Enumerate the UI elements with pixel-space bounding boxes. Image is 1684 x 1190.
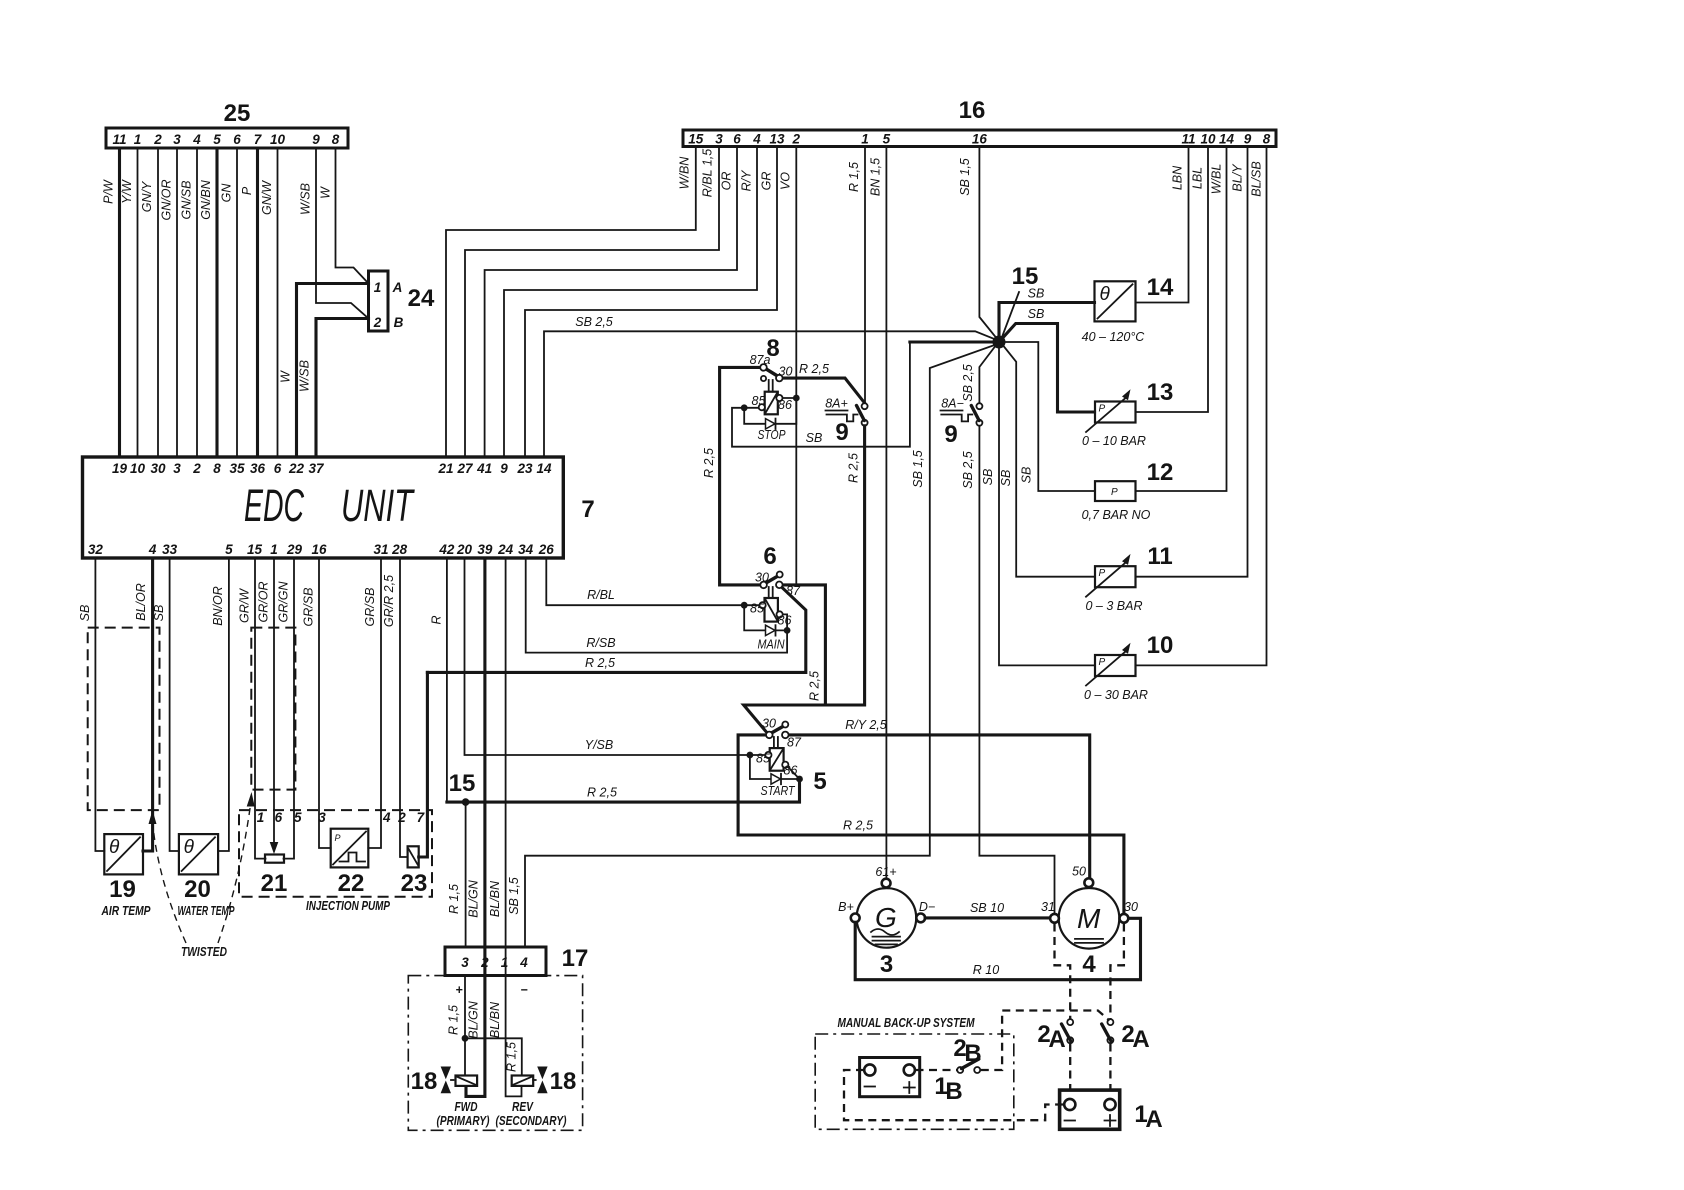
wire 25.8 to 24.1 W xyxy=(336,148,369,284)
connector 17 xyxy=(445,947,546,976)
switch 2B xyxy=(957,1067,963,1073)
connector 25 xyxy=(106,128,348,148)
svg-text:W/SB: W/SB xyxy=(298,360,312,392)
wire EDC.34 R/SB to MAIN diode xyxy=(526,558,787,653)
svg-text:18: 18 xyxy=(550,1068,577,1095)
svg-text:R/Y: R/Y xyxy=(740,169,754,192)
svg-text:GR/GN: GR/GN xyxy=(277,581,291,623)
svg-text:SB: SB xyxy=(806,431,823,445)
wire 16.2 VO down to MAIN 87 xyxy=(795,147,797,585)
svg-text:12: 12 xyxy=(1147,459,1174,486)
svg-text:9: 9 xyxy=(944,421,957,448)
air temp sensor 19 xyxy=(104,834,143,874)
svg-text:W/BN: W/BN xyxy=(678,156,692,190)
svg-text:SB: SB xyxy=(999,470,1013,487)
svg-text:2: 2 xyxy=(397,810,406,825)
svg-text:31: 31 xyxy=(373,542,388,557)
svg-text:30: 30 xyxy=(762,717,776,731)
svg-text:9: 9 xyxy=(312,132,320,147)
svg-text:R 2,5: R 2,5 xyxy=(585,656,615,670)
svg-text:R/BL 1,5: R/BL 1,5 xyxy=(701,149,715,197)
wire 23 to R 2,5 line xyxy=(419,672,428,857)
svg-text:R/BL: R/BL xyxy=(587,588,615,602)
svg-text:6: 6 xyxy=(233,132,241,147)
svg-text:30: 30 xyxy=(779,365,793,379)
svg-text:A: A xyxy=(1145,1106,1162,1133)
svg-text:P: P xyxy=(1099,657,1106,668)
wire 16.10 LBL to sensor 13 xyxy=(1136,147,1209,413)
battery 1B xyxy=(860,1058,920,1097)
connector 24 xyxy=(369,271,389,331)
svg-text:θ: θ xyxy=(109,837,120,858)
svg-text:8: 8 xyxy=(1263,132,1271,147)
dashed wire 1B- left loop to 1A- xyxy=(844,1070,1063,1120)
node 15 left: EDC.42 R to R 2,5 xyxy=(446,558,448,802)
svg-text:BL/BN: BL/BN xyxy=(488,1001,502,1038)
wire 8A- down SB 2,5 to motor 31 xyxy=(979,426,1054,914)
svg-text:21: 21 xyxy=(437,461,453,476)
svg-text:4: 4 xyxy=(752,132,761,147)
svg-text:22: 22 xyxy=(288,461,305,476)
svg-text:18: 18 xyxy=(411,1068,438,1095)
svg-text:θ: θ xyxy=(1100,284,1111,305)
svg-text:R 2,5: R 2,5 xyxy=(702,448,716,478)
svg-text:11: 11 xyxy=(1181,132,1195,147)
svg-text:30: 30 xyxy=(1124,900,1138,914)
svg-text:A: A xyxy=(1048,1026,1065,1053)
svg-text:OR: OR xyxy=(720,172,734,191)
START 86 diagonal xyxy=(788,767,800,780)
svg-text:R/SB: R/SB xyxy=(586,636,615,650)
starter motor 4 xyxy=(1059,888,1120,949)
wire EDC.1 GR/OR wiper arrow xyxy=(273,558,275,843)
wire 16.4-EDC.9 R/Y xyxy=(504,147,757,458)
star ray to sensor 13 SB xyxy=(1003,324,1095,413)
svg-text:BL/Y: BL/Y xyxy=(1231,163,1245,192)
wire 16.9 BL/Y to sensor 11 xyxy=(1136,147,1248,577)
svg-text:MAIN: MAIN xyxy=(758,638,786,652)
svg-text:6: 6 xyxy=(733,132,741,147)
svg-text:START: START xyxy=(761,784,796,798)
EDC UNIT box 7 xyxy=(83,457,564,558)
svg-text:9: 9 xyxy=(500,461,508,476)
svg-text:29: 29 xyxy=(286,542,303,557)
solenoid valve 18 FWD xyxy=(456,1076,478,1086)
wire EDC.24 BL/BN to 17.1 to REV coil xyxy=(506,558,522,1096)
gear dash-dot box xyxy=(408,976,582,1131)
wire 25.10-EDC.6 GN/W xyxy=(277,148,279,457)
wire R 1,5 from node15 to 17.3 and solenoids xyxy=(464,802,467,1075)
motor dashed bracket to switches 2A xyxy=(1055,924,1071,1019)
svg-text:85: 85 xyxy=(756,752,770,766)
svg-text:BL/SB: BL/SB xyxy=(1250,161,1264,196)
svg-text:SB 10: SB 10 xyxy=(970,901,1004,915)
wire 25.11-EDC.19 P/W xyxy=(118,148,121,457)
svg-text:20: 20 xyxy=(456,542,473,557)
svg-text:25: 25 xyxy=(224,100,251,127)
svg-text:10: 10 xyxy=(130,461,146,476)
svg-text:R 1,5: R 1,5 xyxy=(504,1042,518,1072)
svg-text:BN/OR: BN/OR xyxy=(211,586,225,626)
wire 16.5 BN 1,5 down to generator 61+ xyxy=(885,147,887,879)
wire EDC.20 Y/SB to START 85 xyxy=(465,558,766,755)
svg-text:50: 50 xyxy=(1072,865,1086,879)
svg-text:13: 13 xyxy=(769,132,785,147)
svg-text:GN/SB: GN/SB xyxy=(180,181,194,220)
svg-text:2: 2 xyxy=(792,132,801,147)
svg-text:9: 9 xyxy=(835,419,848,446)
START diode loop xyxy=(750,755,800,779)
svg-text:5: 5 xyxy=(883,132,891,147)
svg-text:P: P xyxy=(1111,487,1118,498)
svg-text:SB 1,5: SB 1,5 xyxy=(958,158,972,196)
svg-text:R 1,5: R 1,5 xyxy=(447,1005,461,1035)
svg-text:W: W xyxy=(279,370,293,383)
wire EDC.5 BN/OR to sensor 20 xyxy=(218,558,229,851)
svg-text:4: 4 xyxy=(148,542,157,557)
svg-text:GR: GR xyxy=(760,172,774,191)
wire 16.3-EDC.27 R/BL 1,5 xyxy=(465,147,719,458)
wire EDC.33 SB to sensor 20 xyxy=(170,558,179,851)
water temp sensor 20 xyxy=(179,834,218,874)
svg-text:0 – 3 BAR: 0 – 3 BAR xyxy=(1086,599,1143,613)
svg-text:86: 86 xyxy=(778,398,792,412)
svg-text:87: 87 xyxy=(787,736,802,750)
dashed wires 2A to battery 1A xyxy=(1069,1044,1071,1099)
svg-text:R 2,5: R 2,5 xyxy=(587,786,617,800)
svg-text:STOP: STOP xyxy=(758,428,787,442)
svg-text:30: 30 xyxy=(150,461,166,476)
switch 2A left xyxy=(1067,1019,1073,1025)
wire 16.1 R 1,5 down to breaker 8A+ xyxy=(864,147,866,404)
svg-text:27: 27 xyxy=(456,461,474,476)
svg-text:3: 3 xyxy=(715,132,723,147)
wire 25.2-EDC.30 GN/Y xyxy=(157,148,159,457)
breaker 9 8A- xyxy=(976,403,982,409)
svg-text:W: W xyxy=(319,186,333,199)
svg-text:3: 3 xyxy=(173,461,181,476)
svg-text:16: 16 xyxy=(972,132,988,147)
svg-text:SB: SB xyxy=(152,605,166,622)
svg-text:LBL: LBL xyxy=(1191,167,1205,189)
solenoid valve 18 REV xyxy=(512,1076,534,1086)
dashed wire 2B to 2A right top xyxy=(981,1011,1110,1071)
svg-text:23: 23 xyxy=(516,461,533,476)
relay 6 MAIN body xyxy=(765,598,778,622)
svg-text:61+: 61+ xyxy=(875,865,896,879)
svg-text:16: 16 xyxy=(959,97,986,124)
wire EDC.14 SB 2,5 to node 15 xyxy=(544,331,998,457)
STOP diode loop xyxy=(744,398,796,424)
star ray diag SB 2,5 to breaker 8A- xyxy=(979,347,995,404)
svg-text:6: 6 xyxy=(763,543,776,570)
svg-text:SB 1,5: SB 1,5 xyxy=(911,450,925,488)
switch 2A right xyxy=(1107,1019,1113,1025)
wire 24.1-EDC.22 W xyxy=(297,284,369,458)
svg-text:P: P xyxy=(240,186,254,195)
svg-text:14: 14 xyxy=(1147,274,1174,301)
wire 16.11 LBN to sensor 14 xyxy=(1136,147,1189,303)
svg-text:34: 34 xyxy=(518,542,534,557)
svg-text:R 2,5: R 2,5 xyxy=(807,671,821,701)
wire EDC.16 GR/SB to pickup 22 xyxy=(319,558,331,848)
svg-text:1: 1 xyxy=(861,132,869,147)
svg-text:6: 6 xyxy=(275,810,283,825)
svg-text:2: 2 xyxy=(373,315,382,330)
wire 16.13-EDC.23 GR xyxy=(525,147,777,458)
svg-text:4: 4 xyxy=(1082,951,1096,978)
svg-text:D−: D− xyxy=(919,900,935,914)
svg-text:19: 19 xyxy=(109,876,136,903)
MAIN 86 wire xyxy=(783,614,787,627)
svg-text:A: A xyxy=(1132,1026,1149,1053)
wire STOP 87a to MAIN 30, R 2,5 xyxy=(720,367,761,585)
wire 25.3-EDC.3 GN/OR xyxy=(176,148,178,457)
svg-text:32: 32 xyxy=(88,542,104,557)
injection pump dashed box xyxy=(239,810,432,897)
svg-text:SB: SB xyxy=(981,469,995,486)
manual back-up system dash-dot box xyxy=(815,1034,1014,1129)
breaker 9 8A+ xyxy=(862,403,868,409)
pressure sender 10 xyxy=(1095,655,1136,676)
svg-text:15: 15 xyxy=(449,770,476,797)
svg-text:0 – 10 BAR: 0 – 10 BAR xyxy=(1082,434,1146,448)
svg-text:GR/R 2,5: GR/R 2,5 xyxy=(382,575,396,627)
svg-text:BL/GN: BL/GN xyxy=(467,879,481,917)
svg-text:86: 86 xyxy=(784,764,798,778)
svg-text:42: 42 xyxy=(438,542,455,557)
svg-text:24: 24 xyxy=(408,285,435,312)
svg-text:FWD: FWD xyxy=(455,1099,478,1114)
svg-text:3: 3 xyxy=(173,132,181,147)
svg-text:R 1,5: R 1,5 xyxy=(847,162,861,192)
svg-text:(PRIMARY): (PRIMARY) xyxy=(437,1113,490,1128)
svg-text:17: 17 xyxy=(562,945,589,972)
wire EDC.28 GR/R 2,5 to 23 xyxy=(400,558,408,857)
twisted dashed box around 19 wires xyxy=(88,628,160,811)
svg-text:87: 87 xyxy=(786,584,801,598)
wire 25.6-EDC.35 GN xyxy=(236,148,238,457)
svg-text:B+: B+ xyxy=(838,900,854,914)
svg-text:23: 23 xyxy=(401,870,428,897)
svg-text:BL/BN: BL/BN xyxy=(488,880,502,917)
pickup sensor 22 xyxy=(331,829,369,868)
junction 85 dot xyxy=(741,404,748,411)
pressure sender 11 xyxy=(1095,566,1136,587)
svg-text:EDC: EDC xyxy=(244,480,304,531)
svg-text:SB: SB xyxy=(1019,467,1033,484)
star ray down SB to sensor 10 xyxy=(999,348,1095,665)
MAIN 87 diagonal to R 2,5 injection line xyxy=(427,587,805,672)
svg-text:θ: θ xyxy=(184,837,195,858)
svg-text:3: 3 xyxy=(461,955,469,970)
star ray to sensor 14 SB xyxy=(999,303,1095,337)
svg-text:20: 20 xyxy=(184,876,211,903)
junction dot and branch R 1,5 to REV xyxy=(462,1035,469,1042)
wire R/Y 2,5 START 87 to motor 50 xyxy=(789,735,1090,878)
svg-text:85: 85 xyxy=(752,394,766,408)
svg-text:INJECTION PUMP: INJECTION PUMP xyxy=(306,898,390,913)
svg-text:4: 4 xyxy=(382,810,391,825)
dashed wire 1B+ to 2B xyxy=(916,1069,957,1071)
svg-text:10: 10 xyxy=(1200,132,1216,147)
svg-text:5: 5 xyxy=(225,542,233,557)
svg-text:MANUAL BACK-UP SYSTEM: MANUAL BACK-UP SYSTEM xyxy=(838,1015,976,1030)
wire SB 10 generator D- to motor 31 xyxy=(925,916,1050,919)
svg-text:BN 1,5: BN 1,5 xyxy=(869,158,883,196)
wire 25.1-EDC.10 Y/W xyxy=(137,148,139,457)
svg-text:SB: SB xyxy=(1028,287,1045,301)
svg-text:M: M xyxy=(1077,903,1101,934)
svg-text:24: 24 xyxy=(497,542,514,557)
svg-text:P/W: P/W xyxy=(102,179,116,204)
star ray diag SB to sensor 11 xyxy=(1004,346,1095,577)
svg-text:4: 4 xyxy=(192,132,201,147)
svg-text:14: 14 xyxy=(536,461,552,476)
svg-text:1: 1 xyxy=(270,542,278,557)
svg-text:GN: GN xyxy=(220,183,234,203)
connector 16 xyxy=(683,130,1276,147)
svg-text:35: 35 xyxy=(229,461,245,476)
svg-text:1: 1 xyxy=(134,132,142,147)
wire STOP 85 - SB loop to node 15 xyxy=(732,342,910,447)
svg-text:6: 6 xyxy=(274,461,282,476)
wire START 30 left down to R 2,5 motor line xyxy=(738,735,766,835)
svg-text:4: 4 xyxy=(519,955,528,970)
svg-text:GR/SB: GR/SB xyxy=(302,588,316,627)
svg-text:7: 7 xyxy=(581,496,594,523)
svg-text:AIR TEMP: AIR TEMP xyxy=(101,903,151,918)
wire EDC.32 SB to sensor 19 xyxy=(95,558,104,851)
wire EDC.29 GR/GN to pot 21 xyxy=(284,558,295,859)
svg-text:W/BL: W/BL xyxy=(1210,164,1224,195)
diode STOP xyxy=(766,419,776,429)
svg-text:8A+: 8A+ xyxy=(825,397,848,411)
potentiometer 21 xyxy=(265,855,284,863)
svg-text:P: P xyxy=(1099,568,1106,579)
svg-text:REV: REV xyxy=(512,1099,534,1114)
wire 16.8 BL/SB to sensor 10 xyxy=(1136,147,1267,666)
svg-text:BL/OR: BL/OR xyxy=(134,583,148,621)
svg-text:11: 11 xyxy=(1147,543,1172,570)
svg-text:+: + xyxy=(455,983,463,997)
svg-text:19: 19 xyxy=(112,461,128,476)
svg-text:0,7 BAR NO: 0,7 BAR NO xyxy=(1082,508,1151,522)
svg-text:10: 10 xyxy=(1147,632,1174,659)
svg-text:5: 5 xyxy=(213,132,221,147)
svg-text:21: 21 xyxy=(261,870,288,897)
wire EDC.39 BL/GN to 17.2 to FWD coil xyxy=(466,558,485,1096)
star ray diag SB 1,5 to conn 17.4 xyxy=(525,345,995,947)
stop solenoid 23 xyxy=(408,846,419,867)
generator 3 xyxy=(857,888,917,948)
wire EDC.4 BL/OR to sensor 19 xyxy=(143,558,153,851)
wire EDC.15 GR/W to pot 21 xyxy=(255,558,266,859)
svg-text:5: 5 xyxy=(294,810,302,825)
svg-text:36: 36 xyxy=(250,461,266,476)
svg-text:0 – 30 BAR: 0 – 30 BAR xyxy=(1084,688,1148,702)
svg-text:22: 22 xyxy=(338,870,365,897)
svg-text:15: 15 xyxy=(688,132,704,147)
wire STOP 30 to breaker 8A+, R 2,5 xyxy=(783,378,865,403)
svg-text:41: 41 xyxy=(476,461,492,476)
svg-text:28: 28 xyxy=(391,542,408,557)
wire EDC.31 GR/SB from pickup 22 xyxy=(368,558,381,848)
svg-text:1: 1 xyxy=(257,810,265,825)
svg-text:−: − xyxy=(520,983,528,997)
pressure switch 12 xyxy=(1095,481,1136,501)
wire 8A+ down to MAIN 87 / START 30 xyxy=(744,426,865,733)
svg-text:BL/GN: BL/GN xyxy=(467,1000,481,1038)
svg-text:B: B xyxy=(945,1078,962,1105)
svg-text:LBN: LBN xyxy=(1171,165,1185,190)
wire EDC.26 R/BL to MAIN 85 xyxy=(546,558,758,605)
svg-text:10: 10 xyxy=(270,132,286,147)
svg-text:14: 14 xyxy=(1219,132,1235,147)
temp sender 14 xyxy=(1095,281,1136,321)
svg-text:B: B xyxy=(394,315,404,330)
svg-text:40 – 120°C: 40 – 120°C xyxy=(1082,330,1146,344)
wire 16.14 W/BL to sensor 12 xyxy=(1136,147,1227,492)
svg-text:8A−: 8A− xyxy=(941,397,964,411)
svg-text:R 2,5: R 2,5 xyxy=(843,819,873,833)
pressure sender 13 xyxy=(1095,402,1136,423)
svg-text:A: A xyxy=(392,280,403,295)
svg-text:SB 2,5: SB 2,5 xyxy=(575,315,613,329)
svg-text:R/Y 2,5: R/Y 2,5 xyxy=(845,718,887,732)
svg-text:B: B xyxy=(964,1040,981,1067)
svg-text:5: 5 xyxy=(813,768,826,795)
svg-text:26: 26 xyxy=(538,542,555,557)
svg-text:Y/W: Y/W xyxy=(120,179,134,204)
svg-text:(SECONDARY): (SECONDARY) xyxy=(496,1113,567,1128)
svg-text:SB: SB xyxy=(1028,307,1045,321)
star dot xyxy=(993,336,1006,349)
svg-text:9: 9 xyxy=(1244,132,1252,147)
svg-text:GR/OR: GR/OR xyxy=(257,582,271,623)
star ray right SB to sensor 12 xyxy=(1006,342,1095,491)
svg-text:W/SB: W/SB xyxy=(299,183,313,215)
svg-text:85: 85 xyxy=(750,602,764,616)
svg-text:SB: SB xyxy=(78,605,92,622)
svg-text:1: 1 xyxy=(501,955,509,970)
svg-text:31: 31 xyxy=(1041,900,1055,914)
svg-text:37: 37 xyxy=(308,461,325,476)
svg-text:39: 39 xyxy=(477,542,493,557)
svg-text:1: 1 xyxy=(374,280,382,295)
svg-text:TWISTED: TWISTED xyxy=(181,944,227,959)
junction VO/86 dot xyxy=(793,395,800,402)
svg-text:16: 16 xyxy=(311,542,327,557)
svg-text:P: P xyxy=(335,833,341,843)
svg-text:3: 3 xyxy=(318,810,326,825)
svg-text:11: 11 xyxy=(112,132,126,147)
svg-text:UNIT: UNIT xyxy=(341,480,415,531)
svg-text:R 1,5: R 1,5 xyxy=(447,884,461,914)
svg-text:GR/SB: GR/SB xyxy=(363,588,377,627)
svg-text:Y/SB: Y/SB xyxy=(585,738,614,752)
svg-text:R 10: R 10 xyxy=(973,963,999,977)
svg-text:R: R xyxy=(430,615,444,624)
svg-text:P: P xyxy=(1099,404,1106,415)
svg-text:2: 2 xyxy=(192,461,201,476)
wire 25.9 to 24.2 W/SB xyxy=(316,148,369,319)
svg-text:8: 8 xyxy=(213,461,221,476)
svg-text:GN/Y: GN/Y xyxy=(140,180,154,212)
svg-text:33: 33 xyxy=(162,542,178,557)
battery 1A xyxy=(1060,1090,1120,1129)
wire 24.2-EDC.37 W/SB xyxy=(316,319,369,458)
